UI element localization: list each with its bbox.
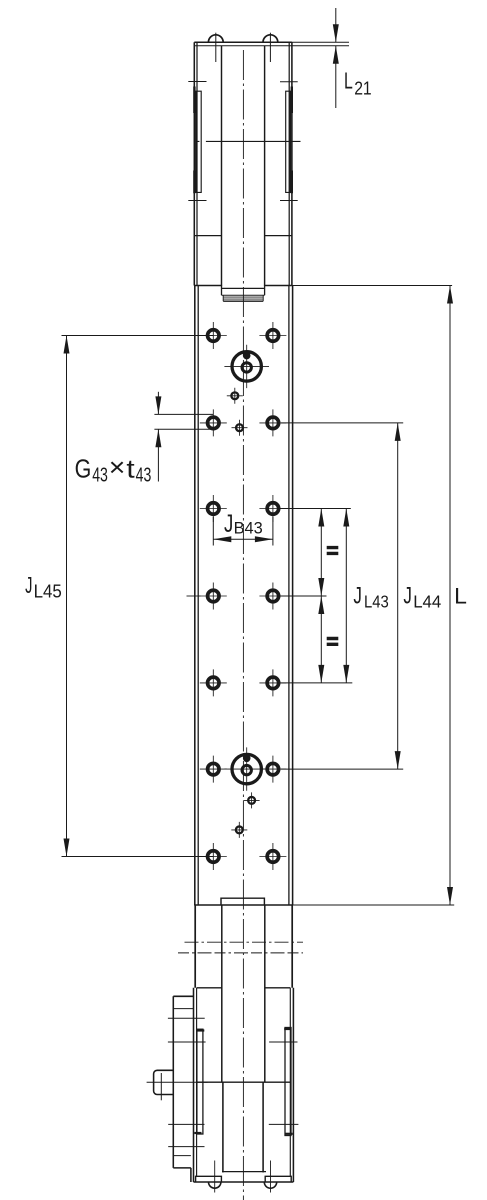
L arrow down [447, 887, 453, 905]
L21 dimension line lower [335, 46, 337, 108]
grease fitting tab [154, 1070, 174, 1094]
drive unit mid line [197, 1081, 291, 1083]
big port circle 1 [224, 345, 269, 388]
JL43 extension line bottom [279, 682, 352, 684]
JL45 extension line bottom [62, 856, 214, 858]
hole row7 left [200, 843, 227, 870]
equal sign lower [327, 639, 339, 645]
hole row2 left [200, 409, 227, 436]
L dimension line [449, 286, 451, 906]
carriage right edge inner [288, 42, 290, 285]
JL43 dimension line [345, 509, 347, 683]
tick left 3 [168, 1123, 204, 1125]
end plate top line [222, 287, 265, 289]
L21 dimension line upper [335, 8, 337, 42]
carriage inner wall left [221, 46, 223, 286]
break line upper [185, 941, 304, 943]
L extension line bottom [293, 904, 454, 906]
side plate line right [265, 235, 292, 237]
lube nipple bump left axis [215, 33, 217, 62]
foot pad left [196, 1176, 222, 1182]
stroke tick upper right [280, 81, 298, 83]
svg-text:J: J [403, 582, 412, 609]
G43 dimension line upper [157, 392, 159, 415]
JB43 extension line left [212, 517, 214, 546]
hole row1 left [200, 322, 227, 349]
equal span lower arrow up [318, 596, 324, 614]
foot pad right [265, 1176, 291, 1182]
JL43 extension line top [280, 508, 351, 510]
bottom nipple right [264, 1182, 276, 1188]
svg-text:L: L [344, 68, 353, 94]
rail right edge inner [288, 286, 290, 906]
lube nipple bump right axis [269, 33, 271, 62]
seal strip right [285, 1028, 291, 1136]
JB43 arrow right [255, 536, 273, 542]
JL45 dimension line [66, 336, 68, 857]
rail left edge inner [197, 286, 199, 906]
side bracket top edge [173, 995, 193, 997]
bottom nipple left [209, 1182, 221, 1188]
L extension line top [292, 285, 452, 287]
tick left 1 [168, 1017, 205, 1019]
svg-text:L45: L45 [34, 582, 62, 602]
end seal pack line 2 [223, 298, 263, 300]
drive housing inner wall left [221, 905, 223, 1082]
lube nipple bump right [263, 35, 278, 42]
drive unit left edge inner [196, 988, 198, 1177]
JL43 extension line middle [281, 595, 327, 597]
svg-text:L43: L43 [364, 592, 389, 612]
seal strip left [197, 1029, 203, 1134]
big port circle 2 [224, 747, 269, 790]
stroke tick lower right [280, 200, 298, 202]
rail left edge outer [194, 286, 196, 906]
stroke tick upper left [188, 81, 206, 83]
hole row7 right [259, 843, 286, 870]
tick left 4 [168, 1146, 204, 1148]
JL44 arrow down [395, 751, 401, 769]
equal span dimension line upper [320, 509, 322, 597]
svg-text:21: 21 [354, 79, 372, 99]
end seal pack line 1 [223, 296, 263, 298]
drive unit bottom edge [194, 1181, 294, 1183]
drive housing wall left below rail [194, 905, 196, 988]
G43 arrow up [155, 429, 161, 447]
JL44 extension line top [281, 422, 403, 424]
svg-text:43: 43 [136, 464, 152, 486]
JL45 extension line top [62, 335, 214, 337]
inner wall right lower [262, 1082, 264, 1172]
carriage left edge inner [196, 42, 198, 285]
hole row6 left [200, 756, 227, 783]
L21 arrow down [333, 24, 339, 42]
small hole B2 [244, 792, 260, 808]
svg-text:t: t [126, 454, 135, 484]
svg-text:J: J [25, 572, 32, 598]
inner wall left lower [222, 1082, 224, 1172]
small hole B1 [232, 420, 248, 436]
end seal pack left side [222, 295, 224, 301]
hole row4 left [200, 583, 227, 610]
hole row5 left [200, 669, 227, 696]
small hole A [227, 388, 243, 404]
bottom nipple right axis [270, 1161, 272, 1193]
JB43 arrow left [213, 536, 231, 542]
JL45 arrow up [64, 336, 70, 354]
equal span upper arrow up [318, 509, 324, 527]
lube nipple bump left [208, 35, 223, 42]
side bracket bottom step [190, 1168, 192, 1182]
rail bottom edge [194, 904, 293, 906]
side plate line left [194, 235, 221, 237]
break line lower [178, 952, 303, 954]
svg-text:L44: L44 [413, 591, 441, 611]
JL44 extension line bottom [281, 768, 403, 770]
grease fitting axis horizontal [147, 1081, 208, 1083]
svg-text:J: J [353, 583, 362, 610]
JL43 arrow down [343, 665, 349, 683]
tick right 2 [269, 1123, 299, 1125]
drive unit right edge inner [289, 988, 291, 1177]
drive unit inner bottom line [222, 1171, 266, 1173]
equal span lower arrow down [318, 665, 324, 683]
side bracket inner line [173, 1008, 193, 1010]
grease fitting axis vertical [160, 1073, 162, 1100]
equal sign upper [327, 548, 339, 554]
end seal pack bottom [223, 300, 263, 302]
seal strip right bottom cap [285, 1133, 293, 1135]
side bracket lower line [173, 1155, 191, 1157]
tick right 1 [269, 1041, 297, 1043]
G43xt43 label [75, 452, 152, 486]
drive housing wall right below rail [291, 905, 293, 988]
hole row5 right [259, 669, 286, 696]
drive housing inner wall right [264, 905, 266, 1082]
hole row2 right [259, 409, 286, 436]
tick left 2 [168, 1041, 206, 1043]
svg-text:G: G [75, 454, 92, 484]
JB43 label [224, 510, 263, 538]
rail end tab [221, 898, 264, 905]
G43 dimension line lower [157, 429, 159, 481]
svg-text:B43: B43 [234, 519, 263, 538]
svg-text:J: J [224, 510, 233, 538]
JL45 arrow down [64, 839, 70, 857]
end plate side left [221, 286, 223, 296]
drive unit right edge outer [292, 988, 294, 1182]
drive unit top edge left [197, 987, 222, 989]
centerline main [242, 50, 244, 1200]
small hole C2 [231, 822, 247, 838]
carriage inner wall right [264, 46, 266, 286]
L21 arrow up [333, 46, 339, 64]
seal strip right top cap [284, 1028, 291, 1030]
G43 extension line lower [154, 428, 213, 430]
end plate side right [264, 286, 266, 296]
JL44 label [403, 582, 441, 611]
L arrow up [447, 286, 453, 304]
hole row3 right [259, 495, 286, 522]
G43 arrow down [155, 396, 161, 414]
L21 label [344, 68, 372, 99]
side bracket left edge [172, 996, 174, 1168]
rail right edge outer [292, 286, 294, 906]
equal span dimension line lower [320, 596, 322, 683]
JL43 label [353, 583, 388, 612]
end seal pack right side [262, 295, 264, 301]
L label [454, 583, 467, 608]
carriage bottom edge left [194, 285, 221, 287]
svg-text:L: L [454, 583, 467, 608]
hole row6 right [259, 756, 286, 783]
JL43 arrow up [343, 509, 349, 527]
L21 extension line upper [292, 41, 349, 43]
stroke tick lower left [188, 200, 206, 202]
equal span upper arrow down [318, 578, 324, 596]
JB43 dimension line [213, 538, 273, 540]
seal strip left bottom cap [194, 1132, 201, 1134]
hole row4 right [259, 583, 286, 610]
JL45 label [25, 572, 62, 602]
JB43 extension line right [272, 517, 274, 546]
JL44 arrow up [395, 423, 401, 441]
carriage right edge outer [291, 42, 293, 285]
drive unit top edge right [265, 987, 291, 989]
bottom nipple left axis [214, 1161, 216, 1193]
seal strip slot left [195, 91, 201, 192]
carriage left edge outer [193, 42, 195, 285]
carriage top edge line 1 [194, 41, 292, 43]
end plate bottom line [222, 294, 265, 296]
carriage bottom edge right [265, 285, 292, 287]
JL44 dimension line [397, 423, 399, 769]
hole row3 left [200, 495, 227, 522]
carriage top edge line 2 [194, 45, 292, 47]
seal strip slot right [286, 91, 291, 192]
seal strip left top cap [197, 1029, 204, 1031]
svg-text:×: × [109, 452, 126, 482]
svg-text:43: 43 [92, 464, 108, 486]
side bracket bottom edge [173, 1167, 191, 1169]
drive unit left edge outer [193, 988, 195, 1182]
carriage mid body line [197, 140, 301, 142]
row4 extension stub left [187, 595, 201, 597]
L21 extension line lower [292, 45, 349, 47]
G43 extension line upper [154, 413, 213, 415]
hole row1 right [259, 322, 286, 349]
